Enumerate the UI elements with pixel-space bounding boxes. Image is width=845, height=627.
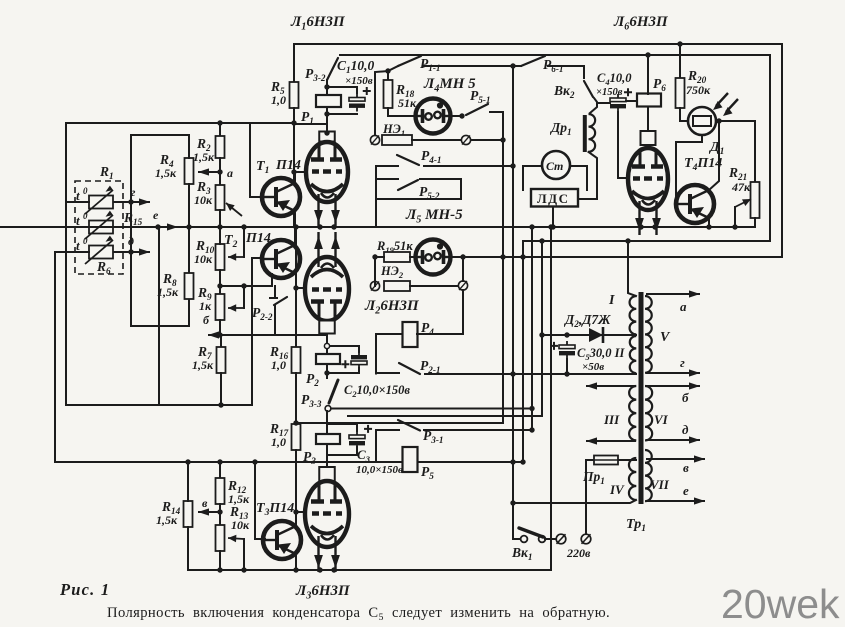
svg-text:Р2: Р2	[306, 371, 319, 388]
tube L1 6N3P	[306, 142, 348, 227]
wire R18 jog	[388, 66, 398, 71]
svg-text:220в: 220в	[566, 546, 591, 560]
node d-row junction	[128, 249, 133, 254]
wire lamp L4 right	[451, 115, 462, 117]
svg-text:IV: IV	[609, 482, 625, 497]
resistor R2	[216, 136, 225, 158]
node R21 bottom	[732, 224, 737, 229]
wire LDS down	[552, 207, 554, 228]
relay P2	[316, 354, 340, 364]
wire T4 emitter down	[708, 218, 710, 227]
wire C1 bottom row	[327, 113, 357, 115]
svg-text:Р2-1: Р2-1	[420, 358, 441, 375]
node bottom T3 base	[241, 567, 246, 572]
wire T3 base feed	[255, 462, 265, 539]
photoresistor D1 light arrows	[713, 93, 738, 116]
wire R4-R8	[188, 184, 190, 273]
node P3-1 x532	[529, 427, 534, 432]
node d arrow	[113, 248, 150, 255]
transformer Tr1 core	[639, 292, 644, 504]
wire R5 rail top	[293, 44, 295, 82]
lamp L4 MN-5	[416, 99, 451, 134]
switch Bk1 lever	[519, 528, 543, 537]
node b-row	[217, 332, 222, 337]
wire v x513	[512, 66, 514, 539]
wire tube L1 grid lead	[294, 171, 307, 173]
node T4 collector top	[716, 118, 721, 123]
node x244 e-row	[241, 224, 246, 229]
svg-text:51к: 51к	[398, 96, 417, 110]
svg-text:Р1: Р1	[301, 109, 314, 126]
wire emitter row y286	[220, 285, 272, 287]
wire R5 bottom	[293, 108, 295, 227]
capacitor C5	[550, 341, 575, 359]
wire P1 top	[326, 80, 328, 95]
node x513 y503	[510, 500, 515, 505]
svg-text:Л66Н3П: Л66Н3П	[613, 14, 669, 32]
transformer winding II	[630, 336, 637, 373]
output arrow g	[646, 369, 700, 376]
wire left rail x66	[65, 123, 67, 405]
wire R9 bottom to b-row	[219, 320, 221, 335]
wire Bk2 to Dr1 top	[590, 98, 597, 113]
resistor R18	[384, 80, 393, 108]
wire P6 col bottom	[647, 107, 649, 130]
wire R16 bottom	[295, 373, 297, 424]
svg-text:С210,0×150в: С210,0×150в	[344, 383, 410, 399]
diode D2 D7Zh	[589, 327, 603, 343]
contactor Cm circle	[542, 151, 570, 179]
svg-text:Сm: Сm	[546, 159, 563, 173]
transformer winding IV	[629, 458, 636, 500]
node P1 bottom	[324, 111, 329, 116]
svg-text:750к: 750к	[686, 83, 711, 97]
wire outer frame rail	[294, 44, 782, 257]
contact P3-1 lever	[398, 420, 420, 431]
resistor R10 wiper	[228, 253, 244, 260]
svg-text:Р2-2: Р2-2	[252, 305, 273, 322]
node R17 top	[293, 420, 298, 425]
svg-text:t: t	[76, 188, 80, 203]
node P3-2 bottom	[324, 84, 329, 89]
wire left bottom row y405	[66, 404, 252, 406]
svg-text:I: I	[608, 293, 615, 308]
node x523 y462	[520, 459, 525, 464]
node P3-3 top	[324, 370, 329, 375]
resistor R9 wiper	[228, 304, 244, 311]
wire R17 top row y423	[296, 422, 503, 424]
node x513 y462	[510, 459, 515, 464]
svg-text:×150в: ×150в	[345, 75, 373, 87]
resistor R10	[216, 244, 225, 270]
node g arrow	[113, 198, 150, 205]
svg-text:1,0: 1,0	[271, 435, 286, 449]
svg-text:Л5 МН-5: Л5 МН-5	[405, 207, 463, 225]
wire T1 collector up	[294, 172, 296, 183]
node x503 y140	[500, 137, 505, 142]
svg-text:t: t	[76, 238, 80, 253]
wire rectifier row y335	[542, 334, 636, 336]
resistor R13 wiper	[228, 535, 244, 542]
relay P1	[316, 95, 341, 107]
node x532 e-row	[529, 224, 534, 229]
resistor R13	[216, 525, 225, 551]
resistor R8	[185, 273, 194, 299]
wire P4 left lead	[376, 333, 402, 335]
svg-text:Р3: Р3	[303, 449, 316, 466]
wire C1 top row	[327, 87, 357, 93]
svg-text:0: 0	[83, 236, 88, 246]
svg-text:С110,0: С110,0	[337, 58, 374, 75]
contact P5-2 lever	[398, 180, 418, 190]
wire R20 top	[679, 44, 681, 78]
transistor T2	[262, 240, 300, 278]
capacitor C4	[610, 88, 632, 112]
wire R4 top	[188, 135, 190, 158]
svg-text:V: V	[660, 330, 671, 345]
node C5 bottom	[564, 371, 569, 376]
wire R9 wiper feed	[243, 286, 245, 308]
resistor R12	[216, 478, 225, 504]
svg-text:10,0×150в: 10,0×150в	[356, 464, 403, 476]
wire T1-T2 chain	[294, 211, 296, 244]
node v	[217, 509, 222, 514]
wire P3-3 down	[326, 411, 328, 434]
svg-text:ЛДС: ЛДС	[537, 191, 570, 206]
capacitor C2	[341, 351, 367, 369]
winding III top arrow	[586, 382, 636, 389]
node R19 left	[372, 254, 377, 259]
node P6 top	[645, 52, 650, 57]
wire P2-2 down	[274, 305, 276, 335]
contact P1-1 lever	[398, 56, 421, 66]
node x542 y241	[539, 238, 544, 243]
node e-row junction	[155, 224, 160, 229]
wire P3 bottom	[326, 444, 328, 466]
wire x375 down	[374, 257, 376, 286]
svg-text:10к: 10к	[231, 518, 250, 532]
svg-text:1,5к: 1,5к	[193, 150, 215, 164]
wire R21 bottom lead	[754, 218, 756, 227]
node a arrow	[198, 168, 220, 175]
wire x296 rail	[295, 227, 297, 347]
transformer winding VII	[645, 450, 652, 501]
wire bottom row y570	[188, 569, 551, 571]
node T3 base top	[252, 459, 257, 464]
svg-text:0: 0	[83, 186, 88, 196]
svg-text:Вк2: Вк2	[553, 83, 575, 100]
node L3 grid	[293, 509, 298, 514]
wire feedback y135	[131, 134, 189, 136]
wire v x542	[541, 241, 543, 416]
wire P5 bus row y462	[55, 461, 523, 463]
svg-text:Др1: Др1	[549, 120, 572, 137]
svg-text:Тр1: Тр1	[626, 517, 646, 534]
resistor R21 wiper	[735, 199, 751, 207]
svg-text:Р3-2: Р3-2	[305, 66, 326, 83]
svg-text:П14: П14	[275, 158, 301, 173]
node L1 anode entry	[324, 130, 329, 135]
contact P2-2 lever	[274, 297, 287, 305]
wire R12 top	[219, 462, 221, 478]
choke Dr1 winding	[589, 114, 596, 152]
svg-text:Полярность включения конденсат: Полярность включения конденсатора С5 сле…	[107, 605, 610, 623]
wire C4 to tube L6 grid	[618, 112, 628, 178]
svg-text:Л36Н3П: Л36Н3П	[295, 583, 351, 601]
svg-text:Рис. 1: Рис. 1	[59, 580, 110, 599]
wire R18 bottom	[388, 108, 415, 116]
wire P4 right lead	[417, 333, 463, 335]
svg-text:Т1: Т1	[256, 159, 269, 176]
resistor R4	[185, 158, 194, 184]
photoresistor D1	[688, 107, 716, 135]
wire x252 T2 base feed	[251, 258, 253, 405]
wire R12-R13	[219, 504, 221, 525]
relay P4	[403, 322, 418, 347]
contact P5-1 lever	[466, 104, 488, 115]
svg-text:t: t	[76, 213, 80, 228]
node P4-1 right	[510, 163, 515, 168]
wire R14 top	[187, 462, 189, 501]
svg-text:Д2,Д7Ж: Д2,Д7Ж	[563, 312, 611, 329]
resistor R21	[751, 182, 760, 218]
wire C5 bottom	[566, 359, 568, 374]
svg-text:в: в	[683, 460, 689, 475]
svg-text:а: а	[227, 166, 233, 180]
wire P2-1 row left	[376, 372, 399, 374]
transistor T3	[263, 521, 301, 559]
wire C3 bottom lead	[327, 447, 357, 455]
svg-text:R15: R15	[123, 210, 143, 227]
node R12 top	[217, 459, 222, 464]
node tube6 heater right	[652, 224, 657, 229]
tube L2 anode box	[319, 321, 335, 334]
transformer winding I	[630, 296, 637, 334]
node L2 grid	[293, 285, 298, 290]
resistor NE2 heater	[384, 281, 410, 291]
transformer winding V	[645, 296, 652, 373]
svg-text:в: в	[202, 496, 208, 510]
wire NE1 to x503	[471, 139, 503, 141]
wire C2 bottom lead	[327, 368, 359, 373]
output arrow v	[646, 455, 705, 462]
node tube1 heater right	[331, 224, 336, 229]
svg-text:10к: 10к	[194, 193, 213, 207]
contact Bk2 lever	[584, 81, 593, 97]
wire feedback x131	[130, 135, 132, 326]
wire T3 emitter	[295, 554, 297, 570]
wire R14 bottom	[187, 527, 189, 570]
wire T2 base	[252, 257, 262, 259]
node R20 top	[677, 41, 682, 46]
wire r8 bottom corner	[131, 299, 189, 326]
node winding I top	[625, 238, 630, 243]
wire P6-1 right	[548, 66, 584, 78]
node x503 y257	[500, 254, 505, 259]
wire NE2 to P4	[462, 290, 464, 334]
switch Bk1 right contact	[539, 536, 546, 543]
wire Dr1 bottom	[578, 152, 597, 199]
wire Cm box right	[570, 166, 587, 190]
wire fuse row	[586, 459, 636, 461]
node x551 y227	[548, 224, 553, 229]
node R3 e-row	[217, 224, 222, 229]
tube L1 anode box	[319, 132, 335, 142]
wire NE2 link right	[410, 285, 458, 287]
thermistor t3 arrow	[85, 236, 113, 264]
node R4 e-row	[186, 224, 191, 229]
fuse Pr1 inner line	[594, 459, 618, 461]
switch Bk1 left contact	[521, 536, 528, 543]
wire v x503	[502, 112, 504, 423]
node box top R2	[217, 120, 222, 125]
transformer winding III	[629, 386, 636, 440]
wire R10 wiper feed	[243, 227, 245, 257]
wire R2 chain	[219, 123, 221, 136]
block LDS box	[531, 189, 578, 207]
tube L6 anode box	[641, 131, 656, 145]
node x532 y408	[529, 406, 534, 411]
wire P3-1 left vert	[375, 430, 377, 462]
svg-text:С3: С3	[357, 447, 371, 464]
wire P2 bottom to lever	[326, 364, 328, 378]
svg-text:е: е	[153, 208, 159, 222]
svg-text:С410,0: С410,0	[597, 71, 632, 87]
wire Bk1 left up	[513, 538, 520, 540]
svg-text:д: д	[682, 422, 689, 437]
svg-text:1,0: 1,0	[271, 358, 286, 372]
svg-text:Р3-3: Р3-3	[301, 392, 322, 409]
wire v x551	[550, 227, 552, 568]
svg-text:R6: R6	[96, 259, 111, 276]
wire T2 emitter down	[271, 274, 273, 286]
terminal 220V	[581, 534, 591, 544]
thermistor t2 arrow	[85, 211, 113, 239]
node tube3 heater left	[317, 567, 322, 572]
wire x159 down	[158, 227, 160, 405]
relay P6	[637, 94, 661, 107]
svg-text:Т4П14: Т4П14	[684, 156, 722, 173]
svg-text:10к: 10к	[194, 252, 213, 266]
relay P3	[316, 434, 340, 444]
svg-text:Р4-1: Р4-1	[421, 148, 442, 165]
wire 220V up	[585, 460, 587, 534]
wire P5-2 box	[376, 179, 461, 199]
wire tube2 box down	[326, 334, 328, 354]
thermistor t1 arrow	[85, 186, 113, 214]
node box top R5	[291, 120, 296, 125]
wire T1 base feed	[250, 123, 262, 197]
wire Cm left	[523, 166, 542, 190]
node T4 emitter	[706, 224, 711, 229]
wire R17 bottom	[295, 450, 297, 493]
node y286 x220	[217, 283, 222, 288]
wire P5-1 right lead	[490, 111, 503, 113]
svg-text:Л26Н3П: Л26Н3П	[364, 298, 420, 316]
output arrow e	[646, 497, 705, 504]
node e arrow	[113, 223, 178, 230]
wire left rail x55	[54, 252, 56, 462]
contact P2-1 lever	[399, 363, 420, 374]
resistor R16	[292, 347, 301, 373]
wire R21 wiper down	[734, 207, 736, 227]
svg-text:III: III	[603, 412, 620, 427]
svg-text:Л16Н3П: Л16Н3П	[290, 14, 346, 32]
wire R2-R3	[219, 158, 221, 185]
wire R13 wiper feed	[243, 539, 245, 570]
svg-text:Р5-1: Р5-1	[470, 88, 491, 105]
node b arrow	[208, 331, 260, 338]
wire C3 top lead	[327, 424, 357, 431]
svg-text:1,5к: 1,5к	[157, 285, 179, 299]
node bottom R13	[217, 567, 222, 572]
wire R18 top	[387, 71, 389, 80]
contact P6-1 lever	[521, 56, 545, 66]
wire P2-2 fixed tick	[270, 297, 277, 299]
node C5 top	[564, 332, 569, 337]
wire P6-1 left	[513, 65, 521, 67]
node x542 c5row	[539, 332, 544, 337]
node L1 grid	[291, 169, 296, 174]
terminal NE2 left	[370, 281, 379, 290]
contact P4-1 lever	[397, 155, 419, 165]
node y286 x244	[241, 283, 246, 288]
output arrow a	[646, 290, 700, 297]
tube L2 6N3P	[305, 232, 349, 321]
wire P6 col top	[647, 55, 649, 94]
svg-text:а: а	[680, 299, 687, 314]
wire C4 right link	[626, 100, 641, 102]
wire NE2 terminal up	[462, 257, 464, 281]
svg-text:Р5: Р5	[421, 464, 434, 481]
svg-text:Вк1: Вк1	[511, 545, 532, 562]
capacitor C1	[349, 87, 371, 112]
capacitor C3	[349, 425, 372, 449]
terminal NE2 right	[458, 281, 467, 290]
terminal NE1 left	[370, 135, 379, 144]
wire tube L2 grid lead	[296, 287, 305, 289]
resistor R9	[216, 294, 225, 320]
node tube6 heater left	[638, 224, 643, 229]
wire tube L3 grid lead	[296, 511, 306, 513]
contact P3-3 lever	[329, 380, 338, 403]
wire R19 right	[410, 256, 415, 258]
svg-text:Р5-2: Р5-2	[419, 184, 440, 201]
svg-text:С530,0 II: С530,0 II	[577, 346, 625, 362]
choke Dr1 core	[583, 115, 587, 152]
svg-text:Р6: Р6	[653, 76, 666, 93]
wire T3 collector	[295, 493, 297, 526]
resistor NE1 heater	[382, 135, 412, 145]
node R7 bottom	[218, 402, 223, 407]
wire R13 bottom	[219, 551, 221, 570]
svg-text:Т3П14: Т3П14	[256, 501, 294, 518]
tube L3 anode box	[319, 467, 335, 481]
wire e-row main	[0, 226, 755, 228]
wire NE1 link right	[412, 139, 461, 141]
resistor R19 heater	[384, 252, 410, 262]
svg-text:47к: 47к	[731, 180, 751, 194]
wire NE1 riser	[375, 71, 389, 135]
resistor R17	[292, 424, 301, 450]
lamp L5 MN-5	[416, 240, 451, 275]
node x296 e-row	[293, 224, 298, 229]
svg-text:1,0: 1,0	[271, 93, 286, 107]
wire winding IV bottom row	[514, 500, 636, 503]
node x513 y374	[510, 371, 515, 376]
wire D1 down to T4 base	[676, 135, 702, 204]
wire T4 collector	[709, 121, 719, 190]
